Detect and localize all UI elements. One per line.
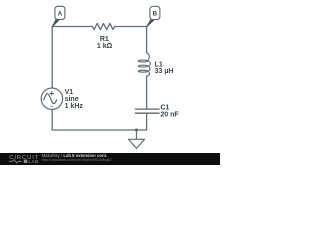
- svg-text:1 kΩ: 1 kΩ: [97, 43, 113, 50]
- svg-text:20 nF: 20 nF: [160, 111, 179, 118]
- svg-text:B: B: [153, 11, 158, 18]
- svg-text:LAB: LAB: [28, 159, 38, 164]
- svg-text:A: A: [58, 11, 63, 18]
- svg-text:http://circuitlab.com/c/m2kq9m: http://circuitlab.com/c/m2kq9m99159kq62: [42, 158, 112, 162]
- svg-text:1 kHz: 1 kHz: [65, 103, 84, 110]
- svg-text:C1: C1: [160, 104, 169, 111]
- svg-text:33 µH: 33 µH: [155, 68, 174, 75]
